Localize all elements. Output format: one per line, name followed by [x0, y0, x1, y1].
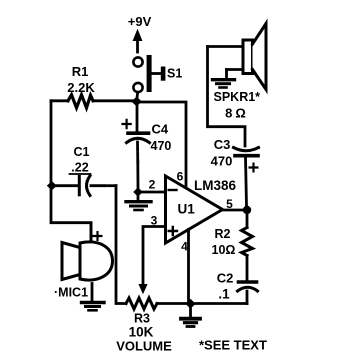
- capacitor C4: [136, 104, 139, 131]
- svg-text:C3: C3: [214, 137, 231, 152]
- svg-text:C4: C4: [152, 122, 169, 137]
- svg-text:R1: R1: [72, 64, 89, 79]
- switch S1 actuator: [152, 72, 161, 75]
- capacitor C2: [239, 280, 257, 284]
- svg-text:VOLUME: VOLUME: [116, 339, 172, 354]
- svg-text:LM386: LM386: [194, 178, 237, 193]
- wire speaker rail: [208, 47, 246, 147]
- wire pin 2: [138, 191, 166, 194]
- wire left rail: [51, 101, 91, 241]
- node ground junction: [185, 299, 195, 309]
- svg-text:10Ω: 10Ω: [212, 243, 236, 257]
- resistor R2: [246, 214, 249, 228]
- svg-text:C1: C1: [74, 145, 90, 159]
- wire top rail left: [51, 99, 137, 102]
- speaker SPKR1: [208, 45, 244, 48]
- svg-text:SPKR1*: SPKR1*: [214, 90, 261, 104]
- +9V supply arrow: [136, 39, 139, 52]
- bottom rail wire: [157, 302, 247, 305]
- svg-text:.22: .22: [71, 161, 88, 175]
- svg-text:C2: C2: [217, 271, 234, 286]
- wire output pin5: [223, 209, 248, 212]
- node pin2: [133, 187, 143, 196]
- svg-text:470: 470: [151, 139, 172, 153]
- node output: [243, 206, 251, 214]
- capacitor C1: [52, 184, 78, 187]
- node V+ junction: [131, 97, 141, 107]
- resistor R3 (volume pot): [126, 298, 157, 309]
- op-amp U1: [166, 176, 223, 243]
- wire C1 to bottom rail: [116, 186, 126, 304]
- resistor R1: [68, 95, 93, 108]
- wire pin 3 to wiper: [143, 227, 166, 285]
- microphone MIC1: [90, 223, 93, 240]
- capacitor C3: [234, 148, 259, 151]
- svg-text:.1: .1: [218, 287, 230, 302]
- svg-text:10K: 10K: [129, 325, 154, 340]
- svg-text:*SEE TEXT: *SEE TEXT: [199, 338, 267, 353]
- wire S1 to V+ node: [136, 92, 139, 98]
- wire pin 4: [187, 230, 190, 304]
- switch S1 terminal (top circle): [133, 57, 142, 66]
- svg-text:2.2K: 2.2K: [67, 80, 95, 95]
- svg-text:R2: R2: [215, 227, 231, 241]
- ground pin2: [137, 196, 140, 200]
- ground mic: [91, 284, 94, 302]
- switch S1 bar: [147, 55, 152, 92]
- svg-text:6: 6: [177, 170, 184, 184]
- node C1 tap: [47, 181, 57, 190]
- svg-text:·MIC1: ·MIC1: [54, 286, 88, 300]
- svg-text:+9V: +9V: [128, 14, 152, 29]
- svg-text:8Ω: 8Ω: [225, 106, 249, 121]
- svg-text:470: 470: [211, 154, 233, 169]
- svg-text:S1: S1: [167, 67, 182, 81]
- switch S1 terminal (bottom circle): [133, 83, 142, 92]
- svg-text:U1: U1: [178, 202, 196, 217]
- ground speaker: [225, 70, 228, 79]
- wire V+ node to pin6 drop: [137, 102, 186, 188]
- ground main: [189, 307, 192, 318]
- svg-text:2: 2: [149, 178, 156, 192]
- svg-text:R3: R3: [134, 312, 150, 326]
